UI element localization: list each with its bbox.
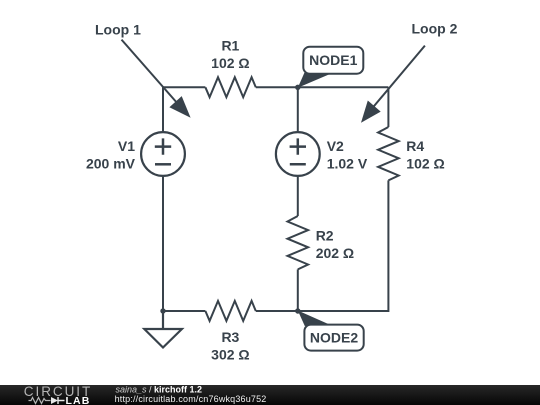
voltage source V2 bbox=[276, 132, 320, 176]
R2 value label bbox=[316, 228, 354, 262]
junction node NODE1 dot bbox=[295, 85, 300, 90]
svg-text:http://circuitlab.com/cn76wkq3: http://circuitlab.com/cn76wkq36u752 bbox=[115, 394, 267, 404]
wire middle branch lower bbox=[297, 269, 299, 311]
wire right branch upper bbox=[387, 87, 389, 127]
resistor R3 bbox=[205, 301, 255, 321]
resistor R4 bbox=[378, 127, 399, 180]
CircuitLab logo wordmark bbox=[24, 384, 92, 405]
wire middle branch between V2 and R2 bbox=[297, 177, 299, 216]
ground bbox=[144, 311, 182, 348]
Loop 1 label bbox=[95, 22, 141, 38]
wire top-left bbox=[163, 86, 205, 88]
R1 value label bbox=[211, 38, 249, 72]
voltage source V1 bbox=[141, 132, 185, 176]
R3 value label bbox=[211, 329, 249, 363]
wire top-middle bbox=[256, 86, 298, 88]
svg-text:LAB: LAB bbox=[66, 395, 91, 405]
junction node NODE2 dot bbox=[295, 308, 300, 313]
wire top-right bbox=[298, 86, 389, 88]
resistor R2 bbox=[288, 216, 309, 269]
wire left branch lower bbox=[162, 177, 164, 311]
wire right branch lower bbox=[298, 180, 389, 311]
wire bottom-left bbox=[163, 310, 205, 312]
logo resistor squiggle bbox=[29, 398, 51, 404]
footer bar bbox=[0, 385, 540, 405]
NODE1 callout bbox=[298, 47, 364, 88]
V2 value label bbox=[327, 138, 368, 172]
V1 value label bbox=[86, 138, 136, 172]
junction dot ground node bbox=[160, 308, 165, 313]
NODE2 callout bbox=[298, 311, 364, 351]
wire middle branch upper bbox=[297, 87, 299, 131]
Loop 2 arrow bbox=[361, 46, 425, 123]
wire left branch upper bbox=[162, 87, 164, 131]
Loop 1 arrow bbox=[122, 40, 191, 118]
wire bottom-middle bbox=[256, 310, 298, 312]
svg-text:saina_s / kirchoff 1.2: saina_s / kirchoff 1.2 bbox=[116, 384, 203, 394]
logo diode bbox=[51, 397, 65, 404]
resistor R1 bbox=[205, 77, 255, 97]
R4 value label bbox=[406, 138, 444, 172]
Loop 2 label bbox=[412, 21, 458, 37]
